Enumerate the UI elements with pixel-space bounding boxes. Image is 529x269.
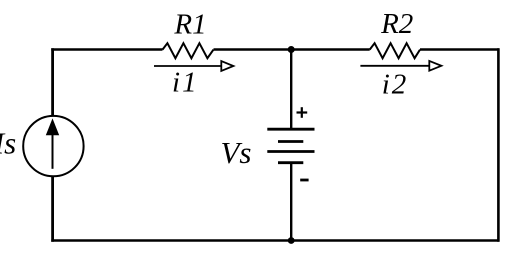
polarity minus sign (300, 179, 308, 182)
wire: bottom horizontal segment (51, 239, 499, 241)
svg-text:i1: i1 (172, 66, 199, 98)
battery long plate (267, 150, 314, 153)
current source Is (circle) (23, 116, 83, 176)
node: bottom junction dot (288, 237, 295, 244)
polarity plus sign (297, 107, 308, 118)
wire: top-left horizontal segment (left corner to R1) (51, 48, 162, 50)
current arrow i1 (154, 61, 233, 71)
wire: top-middle horizontal segment (R1 to R2) (214, 48, 370, 50)
current source Is arrow (52, 132, 54, 169)
wire: middle vertical lower segment (Vs to bottom junction) (290, 163, 292, 241)
wire: right vertical segment (497, 48, 500, 242)
battery short plate (bottom, -) (278, 161, 303, 164)
battery long plate (top, +) (267, 128, 314, 131)
current arrow i2 (360, 61, 441, 71)
svg-text:i2: i2 (382, 68, 409, 100)
svg-text:R2: R2 (380, 8, 413, 40)
wire: middle vertical upper segment (top junction to Vs) (290, 50, 292, 130)
wire: left vertical lower segment (Is circle to bottom) (51, 176, 54, 242)
wire: left vertical upper segment (corner to Is circle) (51, 48, 54, 116)
resistor R1 (zigzag) (163, 43, 214, 58)
wire: top-right horizontal segment (R2 to right corner) (420, 48, 499, 50)
svg-text:R1: R1 (173, 8, 206, 40)
resistor R2 (zigzag) (370, 43, 420, 58)
svg-text:Vs: Vs (221, 135, 252, 170)
svg-text:Is: Is (0, 126, 16, 161)
voltage source Vs (battery) (267, 129, 314, 163)
node: top junction dot (288, 46, 295, 53)
battery short plate (278, 140, 303, 143)
